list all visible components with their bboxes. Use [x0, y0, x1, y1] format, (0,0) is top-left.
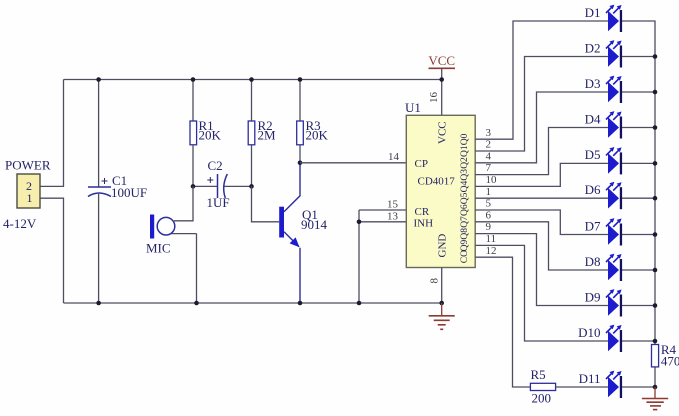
- junction rail ground: [653, 385, 658, 390]
- svg-text:D3: D3: [585, 76, 601, 91]
- junction Q1 collector / CP wire: [298, 161, 303, 166]
- svg-text:200: 200: [532, 391, 552, 406]
- ground symbol (right): [642, 387, 668, 410]
- cathode rail (right): [621, 21, 655, 387]
- svg-text:D2: D2: [585, 40, 601, 55]
- svg-text:20K: 20K: [199, 128, 222, 143]
- wire R2 to Q1 base: [252, 186, 280, 221]
- svg-text:13: 13: [387, 211, 399, 223]
- svg-text:Q1: Q1: [460, 145, 470, 157]
- LED D2: [606, 40, 622, 67]
- svg-text:2M: 2M: [258, 128, 277, 143]
- junction tie/bottom rail: [357, 301, 362, 306]
- junction MIC/bottom rail: [194, 301, 199, 306]
- svg-text:Q0: Q0: [460, 133, 470, 145]
- svg-text:9014: 9014: [301, 217, 328, 232]
- transistor Q1: [279, 163, 300, 303]
- svg-text:MIC: MIC: [146, 241, 171, 256]
- ground symbol (below U1): [429, 303, 455, 329]
- svg-text:D7: D7: [585, 218, 601, 233]
- svg-text:Q4: Q4: [460, 181, 470, 193]
- junction R1/top rail: [191, 77, 196, 82]
- junction C1/bottom rail: [96, 301, 101, 306]
- junction C2 right: [249, 184, 254, 189]
- resistor R1: [190, 80, 197, 187]
- junction rail D4: [653, 125, 658, 130]
- svg-text:D5: D5: [585, 147, 601, 162]
- svg-text:4-12V: 4-12V: [3, 216, 37, 231]
- svg-text:12: 12: [486, 245, 497, 257]
- wire pin 10 (Q4) to D5: [475, 163, 608, 186]
- LED D10: [606, 325, 622, 352]
- wire bottom ground rail: [64, 302, 442, 304]
- resistor R4: [652, 345, 659, 367]
- svg-text:VCC: VCC: [437, 121, 449, 144]
- LED D7: [606, 218, 622, 245]
- junction rail D6: [653, 196, 658, 201]
- junction CR/INH: [357, 220, 362, 225]
- svg-text:16: 16: [428, 92, 440, 104]
- IC U1 CD4017 body: [406, 115, 475, 267]
- svg-text:D4: D4: [585, 111, 601, 126]
- connector J POWER box: [17, 174, 40, 208]
- svg-text:3: 3: [486, 127, 492, 139]
- svg-text:Q2: Q2: [460, 157, 470, 169]
- svg-text:14: 14: [388, 151, 400, 163]
- svg-text:D1: D1: [585, 5, 601, 20]
- svg-text:VCC: VCC: [428, 53, 455, 68]
- capacitor C1: [88, 80, 111, 304]
- wire pin 12 (CO) to R5: [475, 257, 530, 387]
- junction rail D10: [653, 339, 658, 344]
- wire pin 9 (Q8) to D9: [475, 234, 608, 306]
- svg-text:INH: INH: [414, 218, 434, 230]
- junction R3/top rail: [298, 77, 303, 82]
- wire pin 4 (Q2) to D3: [475, 92, 608, 163]
- microphone MIC: [150, 186, 197, 303]
- svg-text:8: 8: [429, 278, 441, 284]
- junction C1/top rail: [96, 77, 101, 82]
- svg-text:D8: D8: [585, 254, 601, 269]
- wire pin 2 (Q1) to D2: [475, 57, 608, 152]
- junction pin8/bottom rail: [439, 301, 444, 306]
- junction rail D5: [653, 161, 658, 166]
- wire INH (pin 13): [359, 221, 406, 223]
- wire pin 7 (Q3) to D4: [475, 128, 608, 175]
- wire left rail upper (to POWER pin 2): [40, 80, 64, 187]
- svg-text:CP: CP: [415, 158, 428, 170]
- LED D6: [606, 182, 622, 209]
- junction rail D2: [653, 54, 658, 59]
- svg-text:470: 470: [661, 354, 679, 369]
- svg-text:1: 1: [27, 191, 33, 205]
- LED D11: [606, 371, 622, 398]
- junction Q1 emitter / bottom rail: [298, 301, 303, 306]
- svg-text:C2: C2: [208, 158, 223, 173]
- svg-text:100UF: 100UF: [111, 185, 147, 200]
- capacitor C2: [193, 174, 252, 198]
- wire CR (pin 15): [359, 209, 406, 211]
- svg-text:Q3: Q3: [460, 169, 470, 181]
- LED D8: [606, 254, 622, 281]
- wire pin 11 (Q9) to D10: [475, 245, 608, 341]
- wire IC pin 8 to ground: [441, 268, 443, 304]
- svg-text:7: 7: [486, 162, 492, 174]
- junction rail D3: [653, 90, 658, 95]
- svg-text:GND: GND: [437, 234, 449, 258]
- svg-text:D10: D10: [578, 325, 600, 340]
- svg-text:10: 10: [486, 174, 498, 186]
- svg-text:R5: R5: [531, 367, 546, 382]
- wire top VCC rail: [64, 79, 442, 81]
- svg-text:CR: CR: [415, 206, 430, 218]
- svg-text:20K: 20K: [306, 128, 329, 143]
- junction VCC/top rail: [439, 77, 444, 82]
- svg-text:Q9: Q9: [460, 240, 470, 252]
- svg-text:POWER: POWER: [5, 158, 51, 173]
- wire pin 5 (Q6) to D7: [475, 210, 608, 235]
- svg-text:Q7: Q7: [460, 216, 470, 228]
- wire pin 3 (Q0) to D1: [475, 21, 608, 139]
- resistor R2: [248, 80, 255, 187]
- LED D5: [606, 147, 622, 174]
- svg-text:6: 6: [486, 209, 492, 221]
- svg-text:Q5: Q5: [460, 192, 470, 204]
- svg-text:5: 5: [486, 198, 492, 210]
- junction C2 left: [191, 184, 196, 189]
- junction rail D7: [653, 232, 658, 237]
- svg-text:11: 11: [486, 233, 497, 245]
- svg-text:CD4017: CD4017: [418, 176, 456, 188]
- resistor R5: [530, 383, 608, 390]
- svg-text:D9: D9: [585, 289, 601, 304]
- LED D9: [606, 289, 622, 316]
- wire CP (pin 14): [300, 162, 406, 164]
- svg-text:Q6: Q6: [460, 204, 470, 216]
- svg-text:9: 9: [486, 221, 492, 233]
- VCC power symbol: [428, 53, 455, 115]
- LED D1: [606, 5, 622, 32]
- svg-text:1: 1: [486, 186, 492, 198]
- svg-text:CO: CO: [460, 250, 470, 263]
- svg-text:15: 15: [387, 199, 399, 211]
- junction rail D9: [653, 303, 658, 308]
- svg-text:U1: U1: [405, 100, 421, 115]
- junction rail D8: [653, 268, 658, 273]
- wire CR/INH tie down to ground rail: [358, 210, 360, 303]
- wire left rail lower (POWER pin 1 to ground rail): [40, 198, 64, 303]
- svg-text:D6: D6: [585, 182, 601, 197]
- svg-text:2: 2: [486, 139, 492, 151]
- svg-text:1UF: 1UF: [207, 195, 230, 210]
- LED D3: [606, 76, 622, 103]
- resistor R3: [297, 80, 304, 163]
- junction R2/top rail: [249, 77, 254, 82]
- svg-text:D11: D11: [579, 371, 601, 386]
- wire pin 6 (Q7) to D8: [475, 222, 608, 270]
- LED D4: [606, 111, 622, 138]
- wire pin 1 (Q5) to D6: [475, 197, 608, 199]
- svg-text:Q8: Q8: [460, 228, 470, 240]
- svg-text:4: 4: [486, 150, 492, 162]
